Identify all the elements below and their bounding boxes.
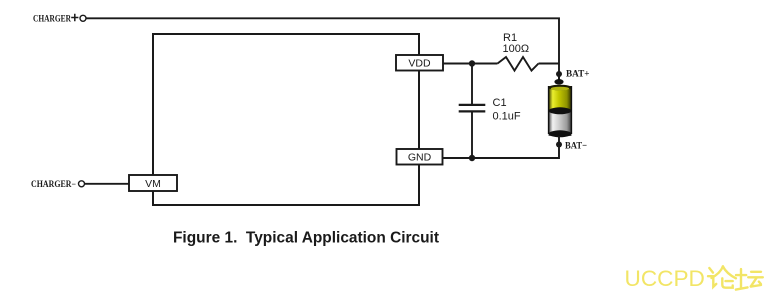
terminal CHARGER+ xyxy=(80,15,86,21)
svg-text:GND: GND xyxy=(408,152,432,164)
battery BT1 xyxy=(549,74,572,146)
svg-text:0.1uF: 0.1uF xyxy=(493,110,521,122)
svg-text:CHARGER−: CHARGER− xyxy=(31,179,76,189)
resistor R1 xyxy=(498,32,560,71)
top terminal nub xyxy=(554,79,563,85)
node BAT- xyxy=(556,142,562,148)
junction dot GND net xyxy=(469,155,475,161)
top rim xyxy=(549,85,572,91)
svg-text:UCCPD: UCCPD xyxy=(625,266,705,291)
cell body xyxy=(549,86,572,136)
wire GND to battery negative xyxy=(443,145,560,159)
CJK char LUN xyxy=(708,266,736,287)
middle band xyxy=(549,107,572,114)
IC body rectangle xyxy=(153,34,419,205)
pin box GND xyxy=(397,149,443,165)
CJK char TAN xyxy=(736,269,763,290)
pin box VM xyxy=(129,175,177,191)
svg-text:BAT−: BAT− xyxy=(565,140,587,151)
wire CHARGER+ to right rail xyxy=(86,18,559,81)
svg-text:VM: VM xyxy=(145,178,161,190)
svg-text:100Ω: 100Ω xyxy=(503,43,530,55)
wire VDD to node xyxy=(443,63,498,65)
bottom cap xyxy=(549,130,572,137)
svg-text:BAT+: BAT+ xyxy=(566,68,590,79)
junction dot VDD net xyxy=(469,60,475,66)
pin box VDD xyxy=(396,55,443,71)
wire cell to BAT- dot xyxy=(558,136,560,146)
svg-text:Figure 1. Typical Application: Figure 1. Typical Application Circuit xyxy=(173,230,439,247)
svg-text:C1: C1 xyxy=(493,97,507,109)
wire BAT+ dot to cell xyxy=(558,74,560,81)
svg-text:VDD: VDD xyxy=(408,58,431,70)
outline xyxy=(549,86,572,134)
wire CHARGER- to VM xyxy=(85,183,129,185)
watermark UCCPD xyxy=(625,266,763,291)
svg-text:CHARGER: CHARGER xyxy=(33,13,71,23)
capacitor C1 xyxy=(459,64,521,159)
node BAT+ xyxy=(556,71,562,77)
terminal CHARGER- xyxy=(79,181,85,187)
